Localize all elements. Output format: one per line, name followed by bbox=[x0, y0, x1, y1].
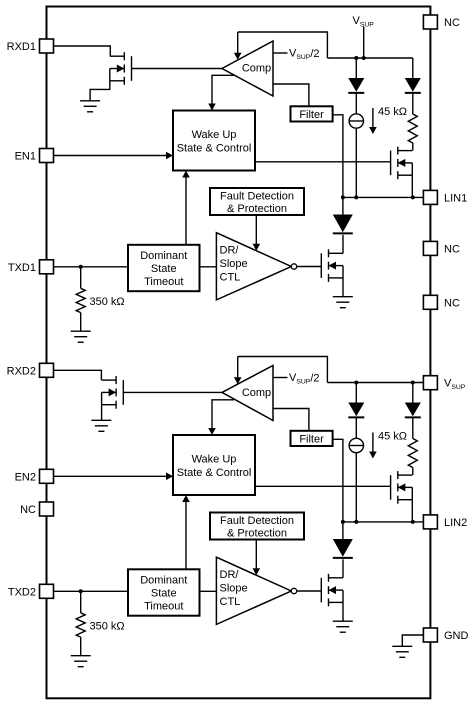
wire 350k resistor to ground bbox=[80, 313, 82, 332]
wire RXD2 pin to Q4 drain bbox=[54, 370, 102, 380]
diode D2 (pull-up diode) bbox=[405, 78, 421, 93]
node LIN2 pull-up junction bbox=[411, 520, 415, 524]
svg-text:Dominant: Dominant bbox=[140, 575, 187, 587]
pin EN1 bbox=[40, 149, 54, 163]
svg-text:NC: NC bbox=[444, 243, 460, 255]
wire VSUP rail ch1 bbox=[327, 57, 412, 59]
svg-text:NC: NC bbox=[444, 297, 460, 309]
block Wake Up State & Control (ch2) bbox=[173, 435, 255, 495]
op-amp U1 comparator "Comp" bbox=[222, 41, 273, 96]
ground (LIN2 driver) bbox=[333, 621, 353, 632]
svg-text:350 kΩ: 350 kΩ bbox=[90, 620, 125, 632]
svg-text:GND: GND bbox=[444, 630, 469, 642]
svg-text:TXD1: TXD1 bbox=[8, 262, 36, 274]
svg-text:Dominant: Dominant bbox=[140, 250, 187, 262]
diode D1 (current source diode) bbox=[348, 78, 364, 93]
transistor Q6 (LIN2 low-side driver) bbox=[321, 574, 343, 607]
wire reference to VSUP rail bbox=[238, 357, 328, 383]
current source I1 bbox=[349, 114, 363, 128]
wire Q source to LIN1 rail bbox=[411, 175, 413, 197]
node VSUP/2 stub bbox=[273, 52, 288, 54]
wire U2 LIN input from Filter bbox=[273, 409, 309, 431]
svg-text:Fault Detection: Fault Detection bbox=[220, 190, 294, 202]
ground (Q1 source) bbox=[80, 101, 100, 112]
svg-text:DR/: DR/ bbox=[220, 245, 240, 257]
svg-text:CTL: CTL bbox=[220, 596, 241, 608]
wire current direction arrow bbox=[372, 108, 374, 128]
wire Fault Detection to driver bbox=[255, 215, 257, 244]
diode D3 (LIN1 blocking diode) bbox=[333, 215, 353, 234]
pin TXD2 bbox=[40, 584, 54, 598]
ground (350 k resistor) bbox=[71, 656, 91, 667]
wire reference to VSUP rail bbox=[238, 32, 328, 58]
svg-text:State & Control: State & Control bbox=[177, 467, 252, 479]
svg-text:RXD1: RXD1 bbox=[7, 41, 36, 53]
wire to 350k resistor bbox=[80, 591, 82, 613]
svg-text:State: State bbox=[151, 263, 177, 275]
wire GND pin to ground bbox=[402, 635, 423, 646]
block Dominant State Timeout (ch1) bbox=[128, 245, 200, 291]
svg-text:350 kΩ: 350 kΩ bbox=[90, 296, 125, 308]
node VSUP rail junction (pull-up branch) bbox=[411, 381, 415, 385]
svg-text:LIN2: LIN2 bbox=[444, 517, 467, 529]
ground (Q4 source) bbox=[91, 420, 111, 431]
wire current direction arrow bbox=[372, 433, 374, 453]
svg-text:Filter: Filter bbox=[299, 433, 324, 445]
svg-text:TXD2: TXD2 bbox=[8, 586, 36, 598]
node VSUP rail junction (current source branch) bbox=[354, 381, 358, 385]
svg-text:NC: NC bbox=[444, 17, 460, 29]
pin RXD2 bbox=[40, 363, 54, 377]
wire U2 output to Wake Up block bbox=[212, 400, 234, 429]
transistor Q5 (LIN2 pull-up switch) bbox=[391, 471, 413, 504]
ground (GND pin) bbox=[392, 646, 412, 657]
transistor Q1 (RXD1 receiver MOSFET) bbox=[110, 52, 132, 85]
svg-text:Slope: Slope bbox=[220, 258, 248, 270]
block Dominant State Timeout (ch2) bbox=[128, 569, 200, 615]
node LIN1 current source junction bbox=[354, 195, 358, 199]
svg-text:Slope: Slope bbox=[220, 583, 248, 595]
wire driver to Q3 gate bbox=[297, 266, 322, 268]
wire LIN2 rail bbox=[343, 521, 424, 523]
svg-text:State & Control: State & Control bbox=[177, 142, 252, 154]
wire Dominant to DR/Slope CTL bbox=[200, 590, 217, 592]
resistor R1 45 k bbox=[408, 114, 417, 143]
wire current source to LIN2 rail bbox=[355, 453, 357, 522]
pin GND bbox=[423, 628, 437, 642]
block Fault Detection & Protection (ch2) bbox=[210, 513, 304, 540]
wire VSUP rail to D4 bbox=[355, 383, 357, 403]
wire comparator output to Q4 gate bbox=[123, 391, 222, 393]
wire VSUP rail to D2 bbox=[412, 58, 414, 78]
wire 350k resistor to ground bbox=[80, 637, 82, 656]
svg-text:NC: NC bbox=[20, 504, 36, 516]
node LIN1 pull-up junction bbox=[411, 195, 415, 199]
svg-text:State: State bbox=[151, 588, 177, 600]
wire LIN1 line to blocking diode bbox=[342, 197, 344, 214]
wire TXD2 to Dominant State Timeout bbox=[54, 590, 129, 592]
wire Filter to LIN1 line bbox=[333, 115, 343, 198]
transistor Q4 (RXD2 receiver MOSFET) bbox=[102, 376, 124, 409]
buffer DR/Slope CTL driver (ch2) bbox=[216, 557, 296, 624]
wire Q1 source to ground bbox=[90, 81, 110, 101]
wire VSUP rail to D1 bbox=[355, 58, 357, 78]
svg-text:45 kΩ: 45 kΩ bbox=[378, 106, 407, 118]
svg-text:RXD2: RXD2 bbox=[7, 365, 36, 377]
svg-text:Wake Up: Wake Up bbox=[192, 453, 237, 465]
wire diode to current source bbox=[355, 93, 357, 114]
wire LIN2 line to blocking diode bbox=[342, 522, 344, 539]
block Fault Detection & Protection (ch1) bbox=[210, 188, 304, 215]
wire Q4 source to ground bbox=[101, 405, 103, 421]
ground (LIN1 driver) bbox=[333, 297, 353, 308]
svg-text:CTL: CTL bbox=[220, 272, 241, 284]
resistor R3 45 k bbox=[408, 439, 417, 468]
svg-text:Timeout: Timeout bbox=[144, 601, 183, 613]
node LIN2 current source junction bbox=[354, 520, 358, 524]
node TXD2 junction bbox=[79, 589, 83, 593]
buffer DR/Slope CTL driver (ch1) bbox=[216, 233, 296, 300]
wire Q source to ground bbox=[342, 602, 344, 621]
node LIN1 filter junction bbox=[341, 195, 345, 199]
transistor Q3 (LIN1 low-side driver) bbox=[321, 249, 343, 282]
pin RXD1 bbox=[40, 39, 54, 53]
diode D5 (pull-up diode) bbox=[405, 403, 421, 418]
svg-text:LIN1: LIN1 bbox=[444, 192, 467, 204]
pin VSUP bbox=[423, 376, 437, 390]
svg-text:Filter: Filter bbox=[299, 109, 324, 121]
wire diode to 45k resistor bbox=[412, 93, 414, 114]
pin NC (right) bbox=[423, 295, 437, 309]
wire Wake Up to Q2 gate bbox=[255, 161, 391, 163]
pin LIN1 bbox=[423, 190, 437, 204]
ground (350 k resistor) bbox=[71, 331, 91, 342]
wire Fault Detection to driver bbox=[255, 540, 257, 569]
wire VSUP/2 reference into U2 bbox=[237, 357, 239, 378]
wire VSUP rail ch2 to VSUP pin bbox=[327, 382, 423, 384]
node VSUP/2 stub bbox=[273, 377, 288, 379]
wire Filter to LIN2 line bbox=[333, 439, 343, 522]
wire to 350k resistor bbox=[80, 267, 82, 289]
node TXD1 junction bbox=[79, 265, 83, 269]
block Filter (ch2) bbox=[291, 431, 333, 446]
svg-text:Wake Up: Wake Up bbox=[192, 129, 237, 141]
wire Dominant State Timeout to Wake Up bbox=[185, 502, 187, 570]
svg-text:EN2: EN2 bbox=[15, 471, 36, 483]
wire diode to 45k resistor bbox=[412, 417, 414, 438]
wire TXD1 to Dominant State Timeout bbox=[54, 266, 129, 268]
node VSUP supply junction bbox=[362, 56, 366, 60]
pin NC bbox=[40, 502, 54, 516]
svg-text:& Protection: & Protection bbox=[227, 527, 287, 539]
wire Q source to ground bbox=[342, 278, 344, 297]
svg-text:DR/: DR/ bbox=[220, 569, 240, 581]
op-amp U2 comparator "Comp" bbox=[222, 366, 273, 421]
diode D6 (LIN2 blocking diode) bbox=[333, 539, 353, 558]
block Wake Up State & Control (ch1) bbox=[173, 111, 255, 171]
wire U1 LIN input from Filter bbox=[273, 84, 309, 106]
wire current source to LIN1 rail bbox=[355, 128, 357, 197]
wire RXD1 pin to Q1 drain bbox=[54, 46, 111, 56]
wire LIN1 rail bbox=[343, 196, 424, 198]
IC package outline bbox=[47, 7, 431, 699]
resistor R4 350 k bbox=[76, 613, 85, 637]
pin NC (right) bbox=[423, 15, 437, 29]
node LIN2 filter junction bbox=[341, 520, 345, 524]
wire Q drain to blocking diode bbox=[342, 235, 344, 253]
svg-text:EN1: EN1 bbox=[15, 151, 36, 163]
wire VSUP supply drop bbox=[363, 27, 365, 59]
pin TXD1 bbox=[40, 260, 54, 274]
wire VSUP rail to D5 bbox=[412, 383, 414, 403]
diode D4 (current source diode) bbox=[348, 403, 364, 418]
svg-text:Comp: Comp bbox=[242, 63, 271, 75]
wire driver to Q6 gate bbox=[297, 590, 322, 592]
svg-text:Timeout: Timeout bbox=[144, 276, 183, 288]
pin NC (right) bbox=[423, 241, 437, 255]
pin LIN2 bbox=[423, 515, 437, 529]
wire EN1 to Wake Up bbox=[54, 155, 167, 157]
wire Wake Up to Q5 gate bbox=[255, 485, 391, 487]
svg-text:& Protection: & Protection bbox=[227, 203, 287, 215]
pin EN2 bbox=[40, 469, 54, 483]
svg-text:45 kΩ: 45 kΩ bbox=[378, 430, 407, 442]
wire Dominant to DR/Slope CTL bbox=[200, 266, 217, 268]
wire EN2 to Wake Up bbox=[54, 475, 167, 477]
wire Q drain to blocking diode bbox=[342, 559, 344, 577]
block Filter (ch1) bbox=[291, 106, 333, 121]
svg-text:Comp: Comp bbox=[242, 387, 271, 399]
wire diode to current source bbox=[355, 417, 357, 438]
transistor Q2 (LIN1 pull-up switch) bbox=[391, 147, 413, 180]
wire U1 output to Wake Up block bbox=[212, 75, 234, 104]
resistor R2 350 k bbox=[76, 288, 85, 312]
wire VSUP/2 reference into U1 bbox=[237, 32, 239, 53]
wire 45k resistor to Q drain bbox=[412, 468, 414, 476]
node VSUP rail junction (current source branch) bbox=[354, 56, 358, 60]
svg-text:Fault Detection: Fault Detection bbox=[220, 515, 294, 527]
wire 45k resistor to Q drain bbox=[412, 143, 414, 151]
wire Q source to LIN2 rail bbox=[411, 500, 413, 522]
wire comparator output to Q1 gate bbox=[132, 68, 223, 70]
wire Dominant State Timeout to Wake Up bbox=[185, 177, 187, 245]
current source I2 bbox=[349, 438, 363, 452]
